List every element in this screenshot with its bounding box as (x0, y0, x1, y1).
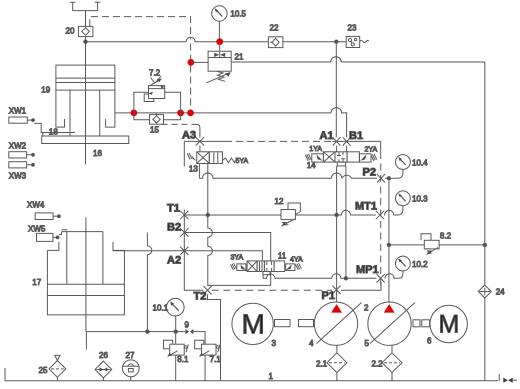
relief valve 8.2 (421, 234, 439, 255)
shaft coupling pump5-M6 (413, 320, 430, 327)
svg-text:XW5: XW5 (28, 225, 46, 234)
relief valve 7.1 (195, 340, 221, 356)
node port A3 (196, 137, 204, 145)
manifold enclosure bottom edge (212, 289, 332, 291)
wire valve 13 tank drop to T1 line (207, 164, 209, 216)
node junction gauge 10.1 (174, 330, 177, 333)
node junction 8.2 branch (387, 243, 390, 246)
wire vertical from top line down to A1 (335, 42, 337, 138)
node port P1 (332, 286, 340, 294)
svg-text:18: 18 (49, 128, 58, 137)
node port T2 (203, 286, 211, 294)
node port B1 (343, 137, 351, 145)
svg-text:T2: T2 (194, 291, 207, 303)
wire B2 branch to cylinder bottom line (147, 233, 151, 332)
connector XW4 (35, 213, 60, 220)
svg-text:10.1: 10.1 (153, 304, 169, 313)
svg-text:XW4: XW4 (27, 201, 45, 210)
base plate 16 (42, 136, 129, 144)
pressure switch 23 (346, 36, 369, 47)
wire cylinder 19 port line y=113 (115, 108, 347, 138)
node red test point at gauge 10.5 (216, 38, 223, 45)
manifold enclosure right edge (380, 141, 382, 152)
node junction to A1 drop (335, 40, 338, 43)
wire valve 21 inlet (191, 61, 208, 63)
wire T2 line to valve 11 drain (208, 272, 271, 286)
pump 5 (368, 302, 415, 345)
motor M 6 (430, 305, 467, 342)
svg-text:XW3: XW3 (9, 171, 27, 180)
suction filter 2.2 (382, 345, 402, 380)
tank (vented reservoir at top of rod) (70, 2, 101, 10)
node junction B2 branch (146, 330, 149, 333)
level gauge 27 (122, 360, 139, 381)
svg-text:10.4: 10.4 (412, 159, 428, 168)
wire A2 branch to cylinder top port (113, 250, 184, 252)
svg-text:XW2: XW2 (9, 142, 27, 151)
wire rod lower cylinder centerline (85, 217, 88, 349)
node port MP1 (377, 274, 385, 282)
wire valve 21 outlet to right bus with hop over A1 drop (231, 57, 485, 62)
wire valve 14 P drop to T1 dot then P1 and pump 4 (336, 166, 338, 302)
node junction at breather (84, 40, 87, 43)
wire P2 junction vertical to pump 5 (388, 178, 390, 302)
orifice 9 (186, 329, 194, 334)
svg-text:2.2: 2.2 (372, 360, 384, 369)
svg-text:M: M (242, 309, 265, 340)
wire relief 7.2 upper branch (134, 92, 181, 113)
svg-text:A3: A3 (182, 130, 196, 142)
suction filter 2.1 (327, 345, 347, 380)
wire T2 vertical from T1 junction (208, 215, 213, 286)
svg-text:10.2: 10.2 (412, 260, 428, 269)
svg-text:11: 11 (278, 252, 287, 261)
gauge 10.4 (395, 155, 410, 179)
gauge 10.2 (396, 256, 411, 271)
node port T1 (180, 211, 188, 219)
cooler 26 (95, 361, 112, 381)
svg-text:P1: P1 (322, 290, 335, 302)
connector XW1 (9, 117, 35, 123)
connector XW3 (9, 162, 35, 168)
svg-text:7.1: 7.1 (210, 355, 222, 364)
svg-text:3YA: 3YA (231, 255, 244, 262)
drain valve bottom right (499, 374, 517, 383)
wire right bus from line 21 output down to filter 24 and tank (484, 62, 486, 285)
svg-text:2: 2 (364, 304, 369, 313)
check valve 22 (268, 37, 283, 48)
cylinder 17 lower cylinder body (47, 232, 124, 315)
solenoid valve 11 (231, 261, 302, 272)
breather filter 20 (78, 26, 93, 36)
svg-text:16: 16 (93, 149, 102, 158)
wire B2 line to valve 11 (184, 233, 270, 261)
node junction valve13 drain (206, 213, 209, 216)
wire dashed pilot line from breather 20 to manifold (90, 17, 191, 40)
svg-text:3: 3 (272, 339, 277, 348)
svg-text:5: 5 (365, 339, 370, 348)
gauge 10.3 (396, 191, 411, 215)
node junction T drop on MP1 (344, 277, 347, 280)
bracket 18 (34, 123, 75, 136)
node junction 8.2 line / right bus (483, 243, 486, 246)
svg-text:24: 24 (496, 288, 505, 297)
wire valve 11 P port to MP1 line (263, 271, 403, 278)
svg-text:10.5: 10.5 (230, 10, 246, 19)
relief valve 8.1 (164, 340, 189, 356)
relief valve 7.2 (144, 76, 165, 101)
svg-text:20: 20 (66, 27, 75, 36)
svg-text:7.2: 7.2 (149, 69, 161, 78)
svg-text:M: M (439, 311, 460, 339)
relief valve 12 (281, 203, 300, 226)
svg-text:T1: T1 (167, 203, 180, 215)
node port A2 (180, 247, 188, 255)
svg-text:XW1: XW1 (9, 107, 27, 116)
svg-text:B2: B2 (167, 222, 181, 234)
wire main top line y=41.7 with hop over dashed line (86, 37, 347, 41)
cylinder 19 upper press cylinder body (56, 65, 115, 136)
wire 8.1 drop to tank (175, 332, 177, 381)
manifold enclosure top edge (184, 140, 225, 142)
breather 25 (49, 355, 66, 380)
shaft coupling M3-pump4 (275, 320, 314, 327)
svg-text:2.1: 2.1 (316, 360, 328, 369)
svg-text:2YA: 2YA (365, 147, 378, 154)
wire A2 line to valve 11 (184, 251, 262, 261)
solenoid valve 13 (187, 146, 235, 164)
svg-text:21: 21 (235, 53, 244, 62)
wire valve 13 out port to P2 line (198, 164, 200, 179)
svg-text:13: 13 (189, 165, 198, 174)
svg-text:MP1: MP1 (356, 264, 379, 276)
svg-text:27: 27 (126, 351, 135, 360)
pump 4 (314, 302, 361, 345)
connector XW5 (37, 230, 68, 242)
svg-text:14: 14 (307, 161, 316, 170)
svg-text:4: 4 (309, 339, 314, 348)
svg-text:10.3: 10.3 (412, 195, 428, 204)
svg-text:A2: A2 (167, 255, 181, 267)
connector XW2 (9, 152, 35, 158)
svg-text:6: 6 (427, 337, 432, 346)
node port MT1 (376, 211, 384, 219)
svg-text:MT1: MT1 (355, 201, 377, 213)
node port P2 (377, 174, 385, 182)
svg-text:8.2: 8.2 (440, 232, 452, 241)
wire pilot dashed line to A3 (162, 123, 195, 125)
svg-text:15: 15 (150, 126, 159, 135)
wire valve 14 T drop to MP1 line (345, 166, 347, 278)
node port A1 (333, 137, 341, 145)
wire check 15 lower branch (134, 113, 181, 120)
wire T1 line y=215 (184, 210, 395, 215)
svg-text:26: 26 (99, 351, 108, 360)
gauge 10.1 (167, 298, 185, 331)
wire P2 line y=178.3 (199, 173, 395, 178)
svg-text:1YA: 1YA (309, 146, 322, 153)
svg-text:9: 9 (185, 321, 190, 330)
relief valve 21 (207, 42, 232, 83)
svg-text:12: 12 (275, 197, 284, 206)
svg-text:17: 17 (32, 278, 41, 287)
node red port on manifold edge (188, 59, 195, 66)
manifold enclosure left edge (184, 141, 203, 290)
wire dashed vertical into manifold edge (190, 44, 192, 111)
svg-text:5YA: 5YA (236, 158, 249, 165)
svg-text:4YA: 4YA (290, 257, 303, 264)
svg-text:P2: P2 (363, 167, 376, 179)
wire T2 drain to tank (208, 294, 221, 380)
wire lower distribution line y=331.6 (86, 332, 205, 381)
node red port dot left (131, 110, 138, 117)
check valve 15 (150, 114, 164, 125)
node junction P drop (335, 213, 338, 216)
svg-text:8.1: 8.1 (177, 355, 189, 364)
node junction P2 gauge branch (387, 177, 390, 180)
svg-text:19: 19 (41, 86, 50, 95)
node red port dot on manifold edge (187, 110, 194, 117)
svg-text:1: 1 (269, 372, 274, 381)
wire rod upper cylinder centerline (85, 11, 87, 165)
motor M 3 (232, 303, 273, 344)
wire P1 to MP1 link (341, 282, 381, 290)
svg-text:B1: B1 (349, 130, 363, 142)
svg-text:23: 23 (348, 24, 357, 33)
filter 24 (478, 285, 491, 298)
svg-text:22: 22 (270, 24, 279, 33)
node port B2 (180, 228, 188, 236)
gauge 10.5 (212, 6, 227, 42)
valve 11 port block (263, 272, 270, 275)
svg-text:25: 25 (39, 366, 48, 375)
node red port dot right (177, 110, 184, 117)
wire tank line 1 (5, 368, 498, 381)
svg-text:A1: A1 (320, 130, 334, 142)
wire 8.2 branch line (389, 244, 485, 246)
solenoid valve 14 (305, 146, 376, 166)
